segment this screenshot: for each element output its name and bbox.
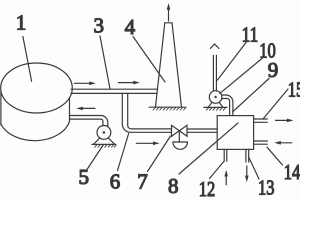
leader to inlet stub	[267, 147, 283, 165]
leader to valve	[148, 136, 171, 172]
wire: box bottom right stub (outlet 13)	[246, 149, 249, 162]
wire: pipe valve to box	[187, 129, 217, 132]
ground hatch under pump 5	[92, 144, 116, 147]
flow arrow on top pipe (right)	[118, 81, 140, 85]
ground hatch under pump 10	[204, 107, 227, 110]
svg-text:15: 15	[288, 77, 300, 101]
open arrowhead above vent	[210, 44, 219, 48]
leader to inlet pipe	[233, 79, 270, 113]
valve 7 (bowtie)	[172, 125, 188, 149]
svg-text:13: 13	[258, 176, 275, 200]
tank 1 (storage cylinder)	[1, 63, 73, 141]
svg-text:3: 3	[93, 14, 104, 38]
leader to pump 10	[220, 59, 262, 94]
wire: top pipe from tank to chimney	[71, 89, 157, 93]
wire: box right upper stub (outlet 15)	[254, 119, 268, 122]
flow arrow on return pipe (to tank)	[76, 107, 95, 111]
svg-text:1: 1	[16, 11, 27, 35]
pump 10 vent pipe 11	[213, 55, 216, 91]
wire: elbow pipe pump 10 into box top	[222, 95, 233, 116]
inflow arrow left	[274, 141, 292, 145]
svg-text:4: 4	[125, 15, 136, 39]
pump 5 (circle with centre dot)	[94, 125, 115, 144]
wire: return pipe tank to pump 5	[70, 116, 108, 127]
svg-text:8: 8	[168, 174, 179, 198]
chimney 4	[156, 23, 182, 107]
svg-text:11: 11	[242, 23, 259, 47]
flow arrow on top pipe (left)	[74, 82, 96, 86]
wire: drop pipe from top pipe down and right to valve	[122, 93, 171, 132]
ground hatch under chimney	[149, 107, 186, 110]
box 8 (reaction vessel)	[217, 116, 253, 150]
svg-text:14: 14	[284, 160, 300, 184]
svg-text:7: 7	[137, 169, 148, 193]
leader to vent pipe	[218, 43, 247, 81]
outflow arrow down	[245, 166, 249, 182]
svg-text:6: 6	[110, 169, 121, 193]
leader to chimney	[133, 37, 165, 83]
leader to outlet stub	[263, 89, 288, 119]
pump 10 (circle with centre dot)	[208, 91, 223, 108]
wire: box bottom left stub (inlet 12)	[224, 149, 227, 161]
svg-text:12: 12	[199, 177, 216, 200]
exhaust arrow above chimney	[167, 3, 171, 21]
outflow arrow right	[276, 119, 294, 123]
leader to top pipe	[100, 36, 110, 89]
leader to bottom-right stub	[248, 157, 259, 180]
leader to drop pipe corner	[118, 134, 129, 171]
wire: box right lower stub (inlet 14)	[254, 141, 268, 144]
leader into box 8	[179, 123, 238, 174]
leader to tank 1	[23, 37, 32, 82]
flow arrow between valve and corner	[136, 142, 159, 146]
leader to bottom-left stub	[210, 161, 225, 178]
leader to pump 5	[87, 145, 104, 170]
inflow arrow up	[224, 170, 228, 185]
